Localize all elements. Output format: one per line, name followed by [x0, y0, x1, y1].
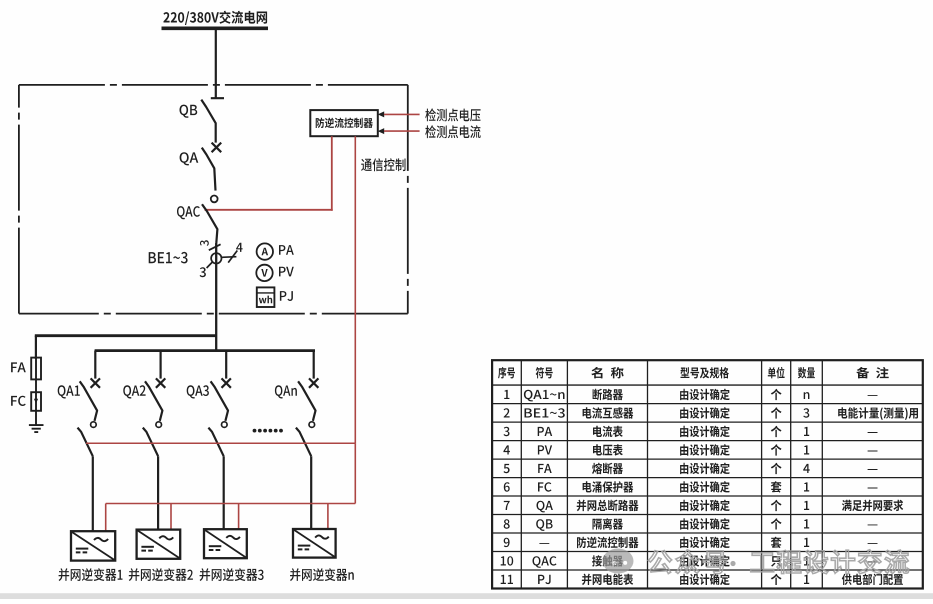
- bus bar 220/380V grid: [162, 26, 269, 30]
- wire bus left drop to FA: [35, 336, 37, 359]
- table row 7 QA: [504, 500, 903, 513]
- controller input arrow (current): [378, 128, 384, 134]
- breaker QA3 label: [187, 385, 209, 398]
- table row 2 BE1~3: [504, 407, 918, 420]
- inverter G1: [71, 531, 115, 560]
- controller input arrow (voltage): [378, 111, 384, 117]
- table row 4 PV: [503, 444, 877, 456]
- inverter G2 label: [129, 568, 193, 581]
- bus branch feeder: [95, 349, 315, 352]
- breaker QA label: [180, 152, 199, 165]
- wire grid drop to QB: [211, 30, 224, 98]
- energy meter PJ label: [280, 291, 293, 301]
- wire feeder drop QA3: [225, 351, 227, 379]
- wire QAn to inverter: [310, 456, 312, 531]
- table component schedule: [492, 360, 923, 588]
- bottom scan band: [0, 593, 933, 599]
- wire detection current (red): [384, 130, 420, 132]
- inverter G1 label: [59, 568, 123, 581]
- voltmeter PV label: [279, 267, 294, 277]
- ammeter PA label: [279, 245, 294, 255]
- ammeter PA symbol: [257, 243, 273, 259]
- wire QAC voltage-sense tap (red): [205, 209, 333, 211]
- contactor QAC fixed contact (hook): [211, 196, 218, 203]
- wire controller to QAC tap (red): [331, 136, 333, 211]
- breaker QAn label: [275, 385, 297, 398]
- table header row: [498, 367, 889, 379]
- breaker QAn lower contact: [309, 422, 315, 428]
- table row 10 QAC: [501, 555, 878, 568]
- breaker QA1 label: [58, 385, 80, 398]
- ellipsis more branches: [253, 429, 257, 433]
- CT BE1~3 winding circle: [211, 253, 221, 263]
- wire feeder drop QA2: [160, 351, 162, 379]
- breaker QA2 label: [123, 385, 145, 398]
- CT BE1~3 pin label 4: [236, 243, 243, 252]
- fuse FA label: [11, 362, 26, 372]
- ground: [29, 425, 44, 432]
- breaker QAn blade: [298, 381, 315, 421]
- wire QA3 to inverter: [223, 456, 225, 531]
- wire red drop to inverter at x=327.9: [327, 504, 329, 530]
- breaker QA terminal X: [212, 143, 222, 153]
- breaker QA3 blade: [211, 381, 228, 421]
- wire QAC to CT to enclosure bottom: [215, 243, 217, 351]
- table row 8 QB: [504, 518, 878, 531]
- label communication control: [361, 158, 405, 171]
- wire red drop to inverter at x=171.0: [170, 504, 172, 530]
- wire QA1 to inverter: [92, 456, 94, 531]
- watermark text: [648, 550, 909, 574]
- switch QA2 lower blade: [143, 428, 158, 457]
- breaker QA1 lower contact: [91, 422, 97, 428]
- voltmeter PV symbol: [256, 265, 272, 281]
- SPD FC box: [31, 392, 41, 411]
- wire FA-FC chain: [35, 359, 37, 425]
- CT BE1~3 secondary tap wire: [222, 256, 237, 259]
- table row 5 FA: [504, 463, 878, 475]
- switch QAn lower blade: [296, 428, 311, 457]
- label detection point voltage: [425, 108, 480, 121]
- table row 9 —: [504, 537, 878, 549]
- table row 6 FC: [504, 481, 878, 493]
- inverter G2: [137, 530, 181, 559]
- watermark logo: [603, 549, 634, 574]
- label detection point current: [425, 125, 480, 138]
- wire red vertical to inverter bus: [354, 443, 356, 503]
- breaker QA2 lower contact: [156, 422, 162, 428]
- wire controller communication line down (red): [354, 136, 356, 443]
- breaker QA3 terminal X: [222, 378, 231, 387]
- wire red drop to inverter at x=238.6: [238, 504, 240, 530]
- contactor QAC label: [177, 206, 200, 219]
- isolator QB label: [180, 105, 198, 118]
- wire current-sense horizontal (red): [86, 442, 355, 444]
- breaker QAn terminal X: [309, 378, 318, 387]
- CT BE1~3 lower tap stroke: [207, 262, 213, 268]
- breaker QA3 lower contact: [222, 422, 228, 428]
- inverter G4 label: [290, 568, 354, 581]
- CT BE1~3 label: [149, 252, 188, 264]
- CT BE1~3 pin label 3 (bottom): [200, 267, 206, 277]
- wire feeder drop QA1: [94, 351, 96, 379]
- fuse FA: [31, 358, 41, 380]
- energy meter PJ symbol: [257, 287, 275, 307]
- enclosure boundary (switchgear cabinet, dash-dot): [19, 85, 408, 314]
- controller U1 anti-backflow box: [310, 110, 378, 136]
- contactor QAC blade: [202, 204, 217, 243]
- breaker QA1 terminal X: [91, 378, 100, 387]
- CT BE1~3 secondary slash: [228, 251, 237, 263]
- net label 220/380V AC grid: [163, 11, 267, 25]
- table row 3 PA: [504, 426, 878, 438]
- CT BE1~3 terminal mark (slash above): [209, 244, 221, 250]
- breaker QA2 blade: [145, 381, 162, 421]
- bus AC distribution upper: [35, 334, 216, 337]
- switch QA1 lower blade: [78, 428, 93, 457]
- CT BE1~3 pin label 3 (rotated, top): [200, 240, 209, 246]
- wire red drop to inverter at x=105.7: [105, 504, 107, 532]
- isolator QB blade: [201, 100, 215, 143]
- bus inverter control (red): [106, 503, 356, 505]
- inverter G3: [204, 529, 247, 558]
- inverter G3 label: [200, 568, 264, 581]
- table row 11 PJ: [501, 574, 903, 586]
- wire detection voltage (red): [384, 113, 420, 115]
- breaker QA blade: [202, 148, 216, 191]
- breaker QA2 terminal X: [156, 378, 165, 387]
- SPD FC label: [11, 396, 26, 406]
- wire QA2 to inverter: [157, 456, 159, 531]
- breaker QA1 blade: [80, 381, 97, 421]
- inverter G4: [293, 529, 336, 558]
- switch QA3 lower blade: [208, 428, 223, 457]
- wire feeder drop QAn: [313, 351, 315, 379]
- table row 1 QA1~n: [504, 389, 877, 402]
